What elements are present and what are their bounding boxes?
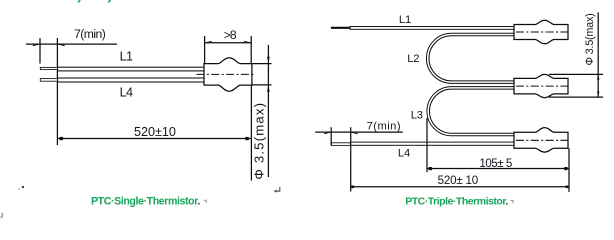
lead L1 (right) bbox=[350, 27, 514, 30]
body centerline bbox=[197, 73, 256, 75]
thermistor body (single) bbox=[204, 58, 252, 91]
green text remnant top 2 bbox=[109, 0, 111, 3]
svg-text:7(min): 7(min) bbox=[74, 27, 106, 41]
svg-text:105± 5: 105± 5 bbox=[479, 157, 511, 170]
svg-text:L4: L4 bbox=[120, 85, 133, 99]
dimension >8 bbox=[205, 36, 252, 63]
dimension 520±10 (right) bbox=[351, 186, 569, 188]
wire L2 loop bbox=[428, 35, 515, 83]
thermistor body B3 (bottom) bbox=[514, 128, 570, 153]
tiny dark dot bbox=[22, 186, 24, 188]
svg-text:L1: L1 bbox=[120, 50, 133, 64]
lead L1 bbox=[40, 67, 204, 71]
svg-text:L4: L4 bbox=[398, 148, 410, 160]
svg-text:PTC·Triple·Thermistor.: PTC·Triple·Thermistor. bbox=[405, 195, 508, 207]
dimension Phi 3.5 (left) bbox=[252, 45, 272, 177]
caption end mark (left) bbox=[204, 200, 206, 203]
tiny gray dash bbox=[18, 189, 20, 190]
dimension 7(min) (right) bbox=[315, 127, 403, 191]
svg-text:L1: L1 bbox=[399, 14, 411, 26]
green text remnant top 1 bbox=[78, 0, 80, 3]
svg-text:520±10: 520±10 bbox=[134, 125, 176, 139]
return mark (left) bbox=[276, 187, 280, 191]
dimension 105±5 bbox=[427, 168, 569, 170]
svg-text:7(min): 7(min) bbox=[367, 121, 401, 133]
gray J mark bottom-left bbox=[0, 213, 2, 218]
lead L4 tip (right) bbox=[331, 143, 350, 146]
svg-text:L3: L3 bbox=[411, 110, 423, 122]
dimension Phi 3.5 (right) bbox=[549, 12, 603, 97]
svg-text:PTC·Single·Thermistor.: PTC·Single·Thermistor. bbox=[91, 195, 200, 207]
dimension 520±10 bbox=[57, 138, 251, 140]
thermistor body B2 (middle) bbox=[514, 74, 570, 97]
lead L1 bare tip (right) bbox=[331, 27, 350, 29]
dimension 7(min) line bbox=[26, 38, 117, 145]
extension line from body right edge bbox=[250, 85, 252, 181]
svg-text:L2: L2 bbox=[407, 53, 419, 65]
dimension 7(min) arrowheads bbox=[33, 44, 65, 46]
wire L3 loop bbox=[428, 88, 514, 135]
svg-text:520± 10: 520± 10 bbox=[438, 175, 478, 187]
lead L4 (right) bbox=[350, 142, 514, 145]
svg-text:>8: >8 bbox=[224, 28, 237, 42]
lead L4 bbox=[40, 78, 204, 82]
svg-text:Φ 3.5(max): Φ 3.5(max) bbox=[584, 13, 596, 65]
caption end mark (right) bbox=[511, 201, 513, 204]
extension line 105 left bbox=[426, 118, 428, 172]
thermistor body B1 (top) bbox=[514, 20, 570, 44]
extension line right (shared 105/520) bbox=[568, 148, 570, 192]
svg-text:Φ 3.5(max): Φ 3.5(max) bbox=[252, 102, 267, 180]
